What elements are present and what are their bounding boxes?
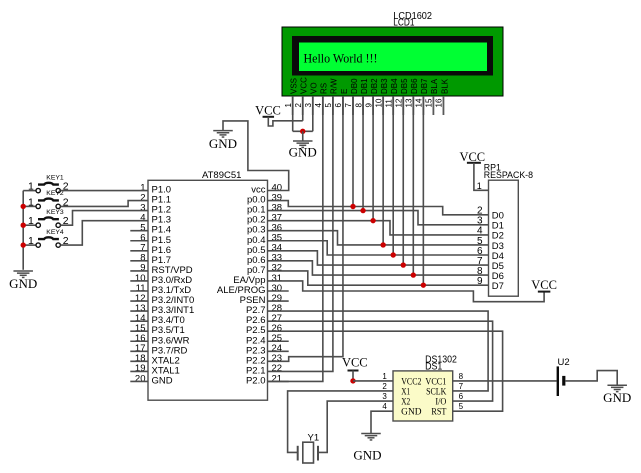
wire LCD DB5 column <box>402 96 404 265</box>
LCD pin 12 stub <box>402 96 404 115</box>
wire p0.0 to DB0 and RP1 pin 2 <box>268 201 489 215</box>
svg-text:VSS: VSS <box>290 78 299 94</box>
junction DB1 <box>360 208 365 213</box>
U1 pin 14 stub <box>130 320 148 322</box>
resistor pack RP1 body <box>489 180 519 296</box>
U1 pin 5 stub <box>130 230 148 232</box>
svg-text:GND: GND <box>353 448 381 463</box>
VCC bar for DS1 <box>348 370 359 372</box>
ground below LCD <box>293 140 313 142</box>
wire LCD pin3 drop <box>312 96 314 131</box>
KEY1 left wire <box>23 190 36 192</box>
svg-text:GND: GND <box>152 375 173 386</box>
U1 pin 24 stub <box>268 350 289 352</box>
battery U2 short plate <box>562 376 565 386</box>
ground at battery <box>607 384 627 386</box>
svg-text:6: 6 <box>459 392 464 401</box>
svg-text:DB7: DB7 <box>420 78 429 94</box>
svg-text:14: 14 <box>415 98 424 107</box>
svg-text:DS1: DS1 <box>425 361 443 372</box>
svg-text:U2: U2 <box>558 357 570 368</box>
LCD pin 11 stub <box>392 96 394 115</box>
svg-text:13: 13 <box>405 98 414 107</box>
svg-text:1: 1 <box>382 372 387 381</box>
LCD pin 9 stub <box>372 96 374 115</box>
svg-text:VCC2: VCC2 <box>401 376 421 386</box>
wire LCD DB7 column <box>422 96 424 285</box>
LCD pin 1 stub <box>292 96 294 115</box>
KEY3 actuator <box>38 217 59 219</box>
wire EA/Vpp to VCC <box>268 281 545 302</box>
KEY2 actuator <box>38 199 59 201</box>
svg-text:1: 1 <box>477 181 482 191</box>
keys ground rail wire <box>22 191 24 270</box>
wire LCD pin1 to pin3 <box>293 130 313 132</box>
LCD pin 13 stub <box>412 96 414 115</box>
svg-text:BLA: BLA <box>430 78 439 94</box>
KEY1 contact right <box>56 188 60 192</box>
svg-text:SCLK: SCLK <box>426 386 447 396</box>
KEY3 contact left <box>36 223 40 227</box>
junction keys rail KEY3 <box>21 223 26 228</box>
svg-text:GND: GND <box>603 390 631 405</box>
crystal Y1 right plate <box>317 446 319 461</box>
KEY3 contact right <box>56 223 60 227</box>
wire P2.6 to DS1302 I/O <box>268 321 493 401</box>
junction DB6 <box>411 272 416 277</box>
svg-text:R/W: R/W <box>330 78 339 94</box>
svg-text:1: 1 <box>284 103 293 108</box>
svg-text:VCC: VCC <box>342 356 368 370</box>
svg-text:11: 11 <box>384 99 393 108</box>
svg-text:3: 3 <box>304 103 313 108</box>
LCD screen <box>299 43 487 72</box>
U1 pin 7 stub <box>130 250 148 252</box>
svg-text:VO: VO <box>310 82 319 94</box>
junction DS1 VCC <box>350 378 355 383</box>
junction keys rail KEY4 <box>21 242 26 247</box>
junction DB2 <box>370 218 375 223</box>
svg-text:8: 8 <box>459 372 464 381</box>
svg-text:AT89C51: AT89C51 <box>202 170 241 181</box>
svg-text:9: 9 <box>477 276 483 287</box>
KEY4 contact right <box>56 243 60 247</box>
svg-text:15: 15 <box>425 98 434 107</box>
U1 pin 20 stub <box>130 380 148 382</box>
svg-text:9: 9 <box>364 103 373 108</box>
svg-text:DB5: DB5 <box>400 78 409 94</box>
ground below DS1 <box>361 433 381 435</box>
svg-text:20: 20 <box>135 373 146 384</box>
svg-text:10: 10 <box>374 98 383 107</box>
KEY1 contact left <box>36 188 40 192</box>
wire LCD DB1 column <box>362 96 364 211</box>
svg-text:3: 3 <box>382 392 387 401</box>
svg-text:P2.0: P2.0 <box>246 375 266 386</box>
svg-text:4: 4 <box>382 402 387 411</box>
battery U2 long plate <box>557 366 559 396</box>
wire p0.5 to DB5 and RP1 pin 7 <box>268 251 489 265</box>
svg-text:VCC: VCC <box>255 103 281 117</box>
wire LCD pin2 drop <box>302 96 304 121</box>
junction DB4 <box>391 252 396 257</box>
wire KEY4 to U1 pin4 <box>60 221 148 245</box>
LCD pin 6 stub <box>342 96 344 115</box>
wire p0.4 to DB4 and RP1 pin 6 <box>268 241 489 255</box>
svg-text:KEY1: KEY1 <box>46 174 64 181</box>
junction LCD VSS-VO ground <box>300 129 305 134</box>
U1 pin 13 stub <box>130 310 148 312</box>
DS1302 body DS1 <box>393 371 453 421</box>
KEY4 contact left <box>36 243 40 247</box>
svg-text:E: E <box>340 89 349 94</box>
svg-text:VCC: VCC <box>300 77 309 94</box>
wire LCD DB0 column <box>352 96 354 207</box>
svg-text:GND: GND <box>401 407 422 417</box>
LCD pin 4 stub <box>322 96 324 115</box>
svg-text:6: 6 <box>334 103 343 108</box>
KEY2 left wire <box>23 205 36 207</box>
svg-text:BLK: BLK <box>440 78 449 94</box>
svg-text:D7: D7 <box>492 281 504 292</box>
wire P2.2 to LCD E <box>268 96 343 361</box>
svg-text:12: 12 <box>394 98 403 107</box>
svg-text:I/O: I/O <box>435 396 446 406</box>
U1 pin 12 stub <box>130 300 148 302</box>
wire DS1 GND pin <box>371 411 393 433</box>
LCD pin 14 stub <box>422 96 424 115</box>
VCC bar for LCD <box>263 116 275 118</box>
svg-text:DB2: DB2 <box>370 78 379 94</box>
U1 pin 16 stub <box>130 340 148 342</box>
KEY4 left wire <box>23 244 36 246</box>
wire LCD DB3 column <box>382 96 384 245</box>
wire VCC stem to DS1 pin1 <box>352 371 354 381</box>
wire battery to ground <box>565 371 617 386</box>
svg-text:KEY3: KEY3 <box>46 209 64 216</box>
wire p0.3 to DB3 and RP1 pin 5 <box>268 231 489 245</box>
svg-text:X1: X1 <box>401 386 410 396</box>
svg-text:RS: RS <box>320 83 329 94</box>
wire p0.7 to DB7 and RP1 pin 9 <box>268 271 489 285</box>
svg-text:8: 8 <box>354 103 363 108</box>
svg-text:VCC: VCC <box>459 150 485 164</box>
wire ground to U1 pin40 <box>223 121 289 191</box>
svg-text:RST: RST <box>431 407 446 417</box>
U1 pin 18 stub <box>130 360 148 362</box>
U1 pin 30 stub <box>268 290 289 292</box>
crystal Y1 left plate <box>297 446 299 461</box>
wire p0.6 to DB6 and RP1 pin 8 <box>268 261 489 275</box>
svg-text:7: 7 <box>344 103 353 108</box>
LCD pin 2 stub <box>302 96 304 115</box>
wire KEY3 to U1 pin3 <box>60 211 148 226</box>
svg-text:DB0: DB0 <box>350 78 359 94</box>
KEY1 actuator <box>38 183 59 185</box>
KEY2 contact left <box>36 204 40 208</box>
wire DS1 VCC1 to battery <box>453 380 557 382</box>
LCD pin 16 stub <box>442 96 444 115</box>
svg-text:5: 5 <box>324 103 333 108</box>
LCD pin 7 stub <box>352 96 354 115</box>
svg-text:5: 5 <box>459 402 464 411</box>
LCD bezel <box>292 36 493 76</box>
svg-text:X2: X2 <box>401 396 410 406</box>
wire LCD DB6 column <box>412 96 414 275</box>
KEY2 contact right <box>56 204 60 208</box>
LCD module LCD1 body <box>282 27 503 96</box>
wire P2.5 to DS1302 RST <box>268 331 503 411</box>
U1 pin 8 stub <box>130 260 148 262</box>
crystal Y1 body <box>303 442 314 463</box>
U1 pin 21 stub <box>268 380 289 382</box>
wire DS1 pin1 <box>353 380 393 382</box>
svg-text:GND: GND <box>9 276 37 291</box>
wire P2.7 to DS1302 SCLK <box>268 311 489 391</box>
svg-text:16: 16 <box>435 98 444 107</box>
VCC bar for RP1 <box>467 162 481 164</box>
svg-text:Hello World !!!: Hello World !!! <box>304 52 378 66</box>
wire p0.1 to DB1 and RP1 pin 3 <box>268 211 489 225</box>
svg-text:21: 21 <box>272 373 283 384</box>
LCD pin 8 stub <box>362 96 364 115</box>
svg-text:KEY4: KEY4 <box>46 229 64 236</box>
LCD pin 3 stub <box>312 96 314 115</box>
wire P2.1 to LCD R/W <box>268 96 333 371</box>
U1 pin 29 stub <box>268 300 289 302</box>
svg-text:VCC: VCC <box>531 278 557 292</box>
U1 pin 11 stub <box>130 290 148 292</box>
ground keys <box>13 270 33 272</box>
wire VCC to LCD pin2 <box>268 117 302 126</box>
svg-text:2: 2 <box>294 103 303 108</box>
LCD pin 10 stub <box>382 96 384 115</box>
AT89C51 chip body U1 <box>148 180 268 400</box>
wire KEY1 to U1 pin1 <box>60 190 148 192</box>
LCD pin 15 stub <box>432 96 434 115</box>
junction DB3 <box>380 242 385 247</box>
svg-text:2: 2 <box>382 382 387 391</box>
U1 pin 6 stub <box>130 240 148 242</box>
svg-text:DB1: DB1 <box>360 78 369 94</box>
wire junction to ground <box>302 131 304 141</box>
svg-text:VCC1: VCC1 <box>425 376 446 386</box>
wire LCD DB4 column <box>392 96 394 255</box>
U1 pin 19 stub <box>130 370 148 372</box>
svg-text:DB3: DB3 <box>380 78 389 94</box>
wire P2.0 to LCD RS <box>268 96 323 381</box>
KEY3 left wire <box>23 224 36 226</box>
U1 pin 25 stub <box>268 340 289 342</box>
svg-text:DB4: DB4 <box>390 78 399 94</box>
wire DS1 X2 to crystal <box>319 401 393 452</box>
svg-text:LCD1: LCD1 <box>393 17 415 28</box>
wire KEY2 to U1 pin2 <box>60 201 148 207</box>
U1 pin 9 stub <box>130 270 148 272</box>
svg-text:GND: GND <box>289 145 317 160</box>
junction DB7 <box>421 282 426 287</box>
wire p0.2 to DB2 and RP1 pin 4 <box>268 221 489 235</box>
wire DS1 X1 to crystal <box>288 391 393 452</box>
junction keys rail KEY2 <box>21 204 26 209</box>
svg-text:DB6: DB6 <box>410 78 419 94</box>
U1 pin 10 stub <box>130 280 148 282</box>
wire VCC to RP1 pin1 <box>474 163 489 191</box>
ground near LCD left <box>213 130 233 132</box>
svg-text:GND: GND <box>209 136 237 151</box>
svg-text:7: 7 <box>459 382 464 391</box>
junction DB5 <box>401 262 406 267</box>
wire LCD DB2 column <box>372 96 374 221</box>
U1 pin 15 stub <box>130 330 148 332</box>
svg-text:4: 4 <box>314 103 323 108</box>
KEY4 actuator <box>38 237 59 239</box>
VCC bar for EA <box>538 291 551 293</box>
LCD pin 5 stub <box>332 96 334 115</box>
U1 pin 17 stub <box>130 350 148 352</box>
junction DB0 <box>350 204 355 209</box>
svg-text:RESPACK-8: RESPACK-8 <box>484 170 533 180</box>
wire LCD pin1 drop <box>292 96 294 131</box>
